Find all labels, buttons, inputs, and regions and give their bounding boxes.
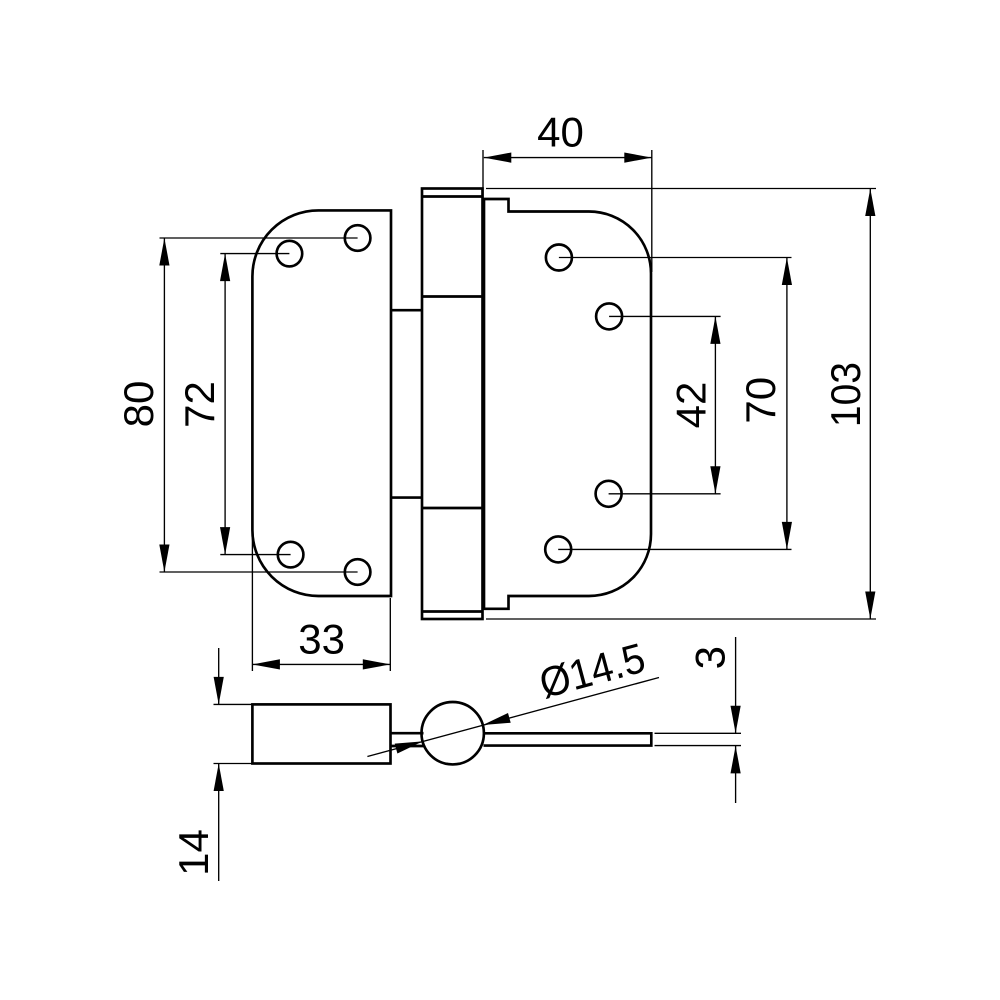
dimension 14	[170, 648, 252, 881]
hole H2 left leaf top-right	[345, 225, 371, 251]
hole H3 left leaf bottom-left	[278, 542, 304, 568]
hinge knuckle barrel	[422, 189, 483, 620]
svg-text:33: 33	[298, 615, 345, 662]
hole H1 left leaf top-left	[277, 241, 303, 267]
leader line diameter 14.5	[367, 634, 659, 757]
dimension 33	[252, 532, 390, 671]
side view barrel circle	[422, 702, 484, 764]
dimension 3	[655, 637, 742, 803]
dimension 80	[115, 238, 358, 572]
svg-text:70: 70	[737, 377, 784, 424]
svg-text:3: 3	[687, 646, 734, 669]
svg-text:40: 40	[537, 109, 584, 156]
svg-text:103: 103	[822, 362, 869, 427]
dimension 72	[176, 254, 291, 555]
knuckle connector top	[391, 309, 422, 312]
dimension 70	[558, 258, 792, 550]
hole H4 left leaf bottom-right	[345, 559, 371, 585]
knuckle connector bottom	[391, 496, 422, 499]
hole H8 right leaf bottom-outer	[545, 536, 571, 562]
left leaf plate outline	[252, 210, 391, 596]
svg-text:14: 14	[170, 829, 217, 876]
hole H7 right leaf bottom-inner	[596, 481, 622, 507]
dimension 40	[483, 109, 652, 273]
hole H6 right leaf top-inner	[596, 303, 622, 329]
svg-text:80: 80	[115, 381, 162, 428]
hole H5 right leaf top-outer	[546, 245, 572, 271]
side view left web	[391, 733, 424, 746]
svg-text:42: 42	[668, 382, 715, 429]
right leaf plate outline	[484, 199, 651, 609]
dimension 42	[609, 316, 721, 493]
side view right leaf bar	[484, 733, 652, 745]
dimension 103	[486, 189, 876, 620]
svg-text:72: 72	[176, 381, 223, 428]
side view leaf block	[252, 704, 390, 763]
